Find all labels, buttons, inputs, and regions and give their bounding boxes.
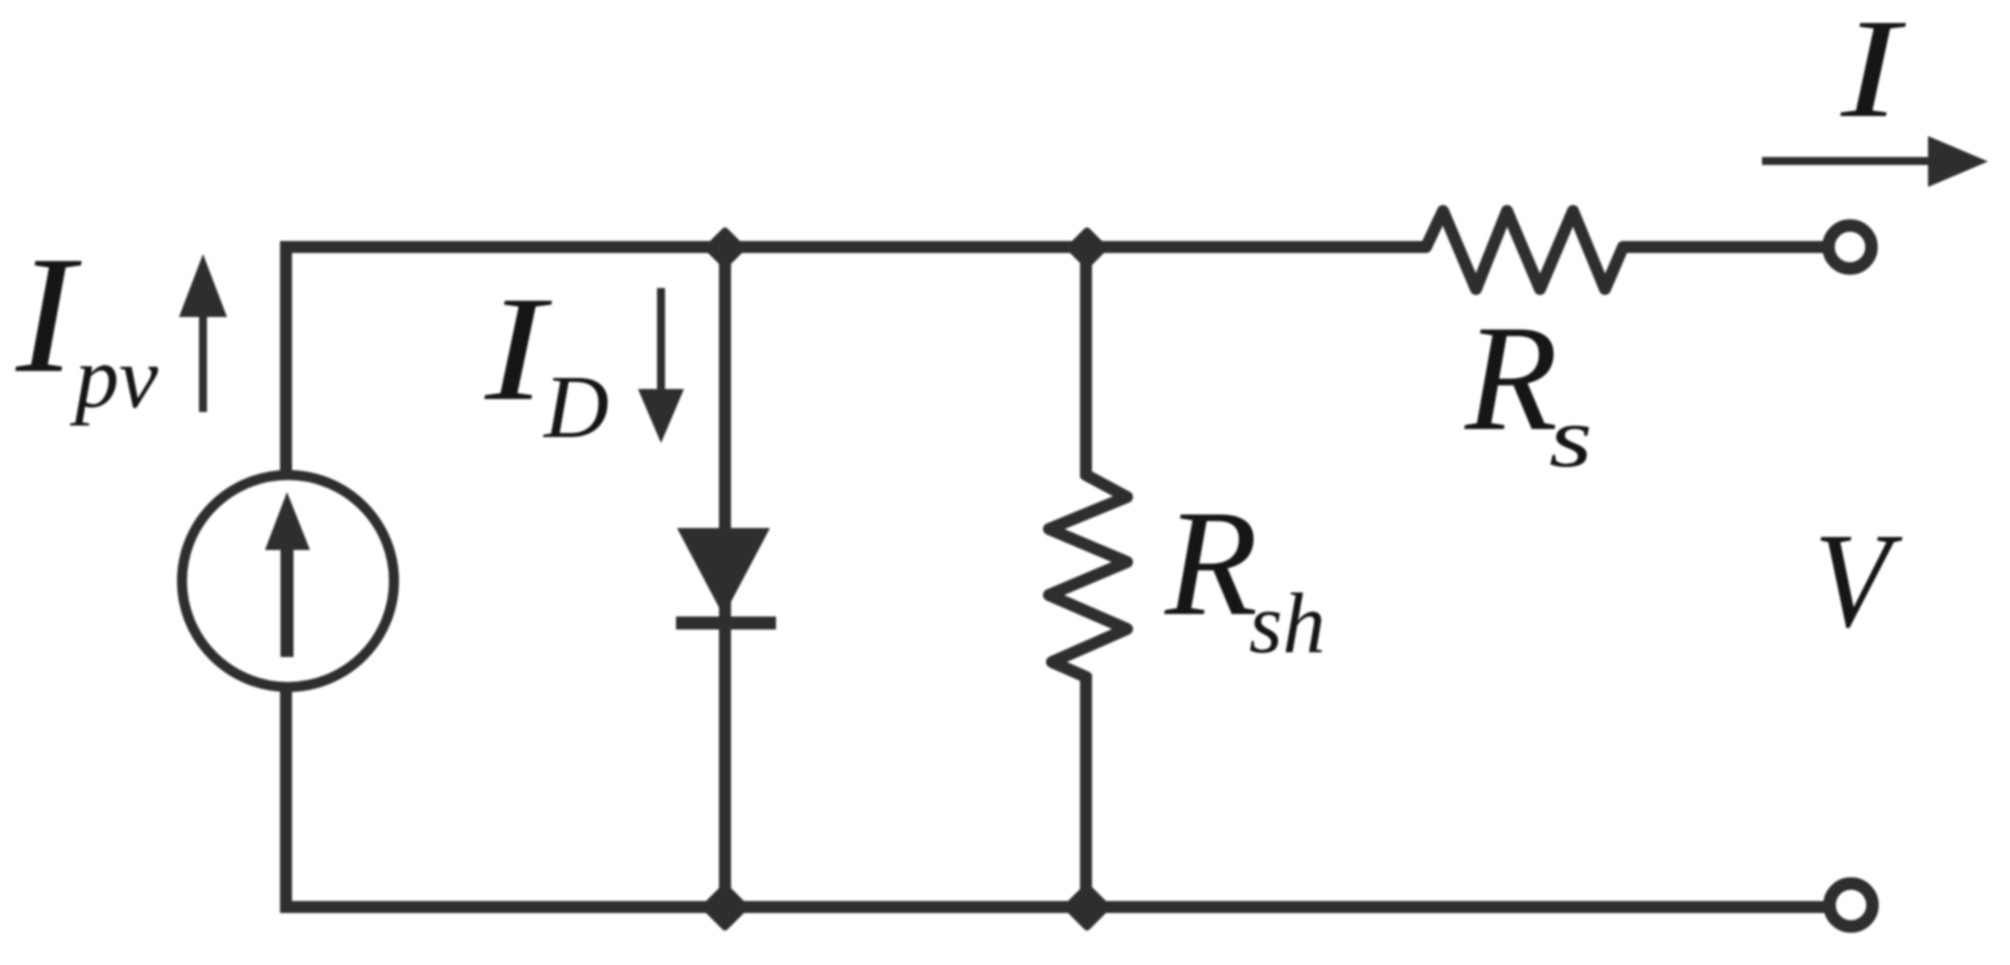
svg-text:s: s bbox=[1549, 389, 1593, 485]
svg-text:pv: pv bbox=[69, 330, 159, 427]
svg-text:V: V bbox=[1814, 506, 1903, 656]
svg-text:I: I bbox=[15, 223, 83, 408]
arrow Ipv (reference direction) bbox=[179, 254, 227, 412]
arrow current I bbox=[1762, 136, 1988, 187]
resistor Rsh bbox=[1049, 458, 1127, 694]
terminal positive (top right) bbox=[1829, 226, 1872, 269]
node junction bottom-right bbox=[1067, 887, 1107, 927]
svg-text:R: R bbox=[1464, 294, 1558, 462]
arrow ID (diode current) bbox=[638, 288, 684, 443]
resistor Rs bbox=[1408, 211, 1640, 289]
node junction top-right bbox=[1070, 231, 1104, 265]
label Ipv bbox=[15, 223, 159, 427]
svg-text:I: I bbox=[484, 265, 552, 432]
wire bottom bus bbox=[280, 901, 1824, 913]
wire Rsh branch top bbox=[1080, 247, 1092, 478]
current source circle bbox=[182, 475, 394, 687]
label Rsh bbox=[1164, 479, 1325, 671]
svg-text:D: D bbox=[542, 358, 609, 457]
diode D bbox=[676, 528, 776, 623]
wire top bus left segment bbox=[280, 241, 1426, 253]
svg-text:sh: sh bbox=[1249, 575, 1325, 671]
current source arrow bbox=[265, 492, 310, 657]
wire diode branch vertical bbox=[719, 247, 731, 907]
label ID bbox=[484, 265, 609, 457]
node junction top-left bbox=[708, 231, 742, 265]
wire left vertical (source branch) bbox=[280, 241, 292, 907]
svg-text:I: I bbox=[1840, 0, 1907, 147]
node junction bottom-left bbox=[705, 887, 745, 927]
svg-text:R: R bbox=[1164, 479, 1258, 647]
terminal negative (bottom right) bbox=[1830, 884, 1873, 927]
wire top bus right segment bbox=[1623, 241, 1823, 253]
wire Rsh branch bottom bbox=[1080, 674, 1092, 907]
